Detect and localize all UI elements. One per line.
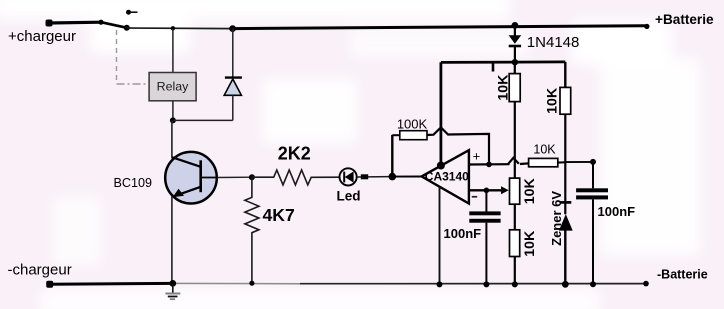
wire base to node bbox=[217, 176, 252, 178]
svg-text:Zener 6V: Zener 6V bbox=[549, 191, 564, 246]
wire LED to output node with blob bbox=[357, 174, 393, 179]
-Batterie terminal bbox=[643, 268, 708, 287]
wire to cap bbox=[565, 159, 596, 188]
wire ground rail to -Batterie bbox=[300, 283, 646, 285]
node 4K7 bottom bbox=[249, 281, 254, 286]
svg-text:10K: 10K bbox=[522, 230, 538, 257]
potentiometer 10K bbox=[510, 177, 538, 204]
svg-text:10K: 10K bbox=[545, 87, 561, 114]
wire cap to ground rail bbox=[592, 199, 594, 284]
svg-text:+Batterie: +Batterie bbox=[655, 12, 714, 27]
resistor 4K7 bbox=[245, 177, 295, 283]
resistor 10K right bbox=[545, 87, 571, 114]
wire terminal to switch bbox=[49, 21, 101, 25]
svg-text:100nF: 100nF bbox=[598, 204, 636, 219]
svg-text:4K7: 4K7 bbox=[262, 205, 294, 225]
wire node to op-amp apex bbox=[392, 176, 421, 178]
terminal -chargeur bbox=[8, 262, 72, 288]
svg-text:BC109: BC109 bbox=[114, 176, 153, 190]
switch S1 open contact bbox=[126, 10, 138, 15]
capacitor C1 100nF bbox=[444, 211, 501, 241]
node op-amp V- bottom bbox=[437, 281, 443, 287]
svg-text:100nF: 100nF bbox=[444, 226, 482, 241]
node relay column on top rail bbox=[171, 26, 175, 30]
node 1N4148 junction bbox=[512, 22, 519, 29]
switch S1 blade bbox=[98, 20, 129, 31]
svg-text:10K: 10K bbox=[522, 177, 538, 204]
wire pot to lower 10K bbox=[514, 204, 516, 230]
wire rail to 10K bbox=[514, 62, 516, 73]
node op-amp output bbox=[389, 173, 397, 181]
wire - input to pot wiper arrow bbox=[469, 186, 509, 194]
zener diode 6V bbox=[549, 191, 572, 246]
wire 10K down to zener bbox=[564, 114, 566, 214]
node relay/diode bbox=[170, 117, 176, 123]
wire node to diode bottom bbox=[173, 119, 233, 121]
wire rail to diode cathode bbox=[232, 29, 234, 78]
+Batterie terminal arrow bbox=[644, 12, 714, 29]
supply column to op-amp edge bbox=[437, 62, 445, 169]
svg-text:10K: 10K bbox=[495, 74, 511, 101]
node diode junction bbox=[229, 25, 236, 32]
relay K1 bbox=[149, 73, 196, 101]
wire cap to ground rail bbox=[485, 223, 487, 285]
stub at supply rail bbox=[492, 62, 495, 71]
resistor 10K upper-left bbox=[495, 74, 520, 102]
svg-text:100K: 100K bbox=[397, 116, 428, 131]
wire op-amp V- down to rail bbox=[439, 187, 441, 284]
wire ground rail thin gray bbox=[174, 282, 300, 284]
svg-text:10K: 10K bbox=[533, 142, 556, 156]
diode D1 clamp bbox=[224, 78, 242, 96]
wire rail corner down bbox=[564, 62, 566, 88]
wire + input bbox=[469, 158, 529, 167]
transistor Q1 BC109 bbox=[114, 152, 218, 204]
ground node bbox=[169, 280, 176, 287]
wire distribution rail bbox=[441, 61, 565, 64]
node base/4K7 bbox=[249, 174, 255, 180]
op-amp U1 CA3140 bbox=[422, 148, 481, 203]
resistor 10K horizontal bbox=[529, 142, 566, 166]
wire 10K down through hop to pot bbox=[514, 102, 516, 179]
svg-text:-chargeur: -chargeur bbox=[8, 262, 72, 279]
resistor 100K bbox=[392, 116, 427, 139]
wire collector bbox=[171, 120, 173, 158]
ground symbol bbox=[165, 283, 180, 299]
svg-text:1N4148: 1N4148 bbox=[527, 34, 580, 51]
capacitor C2 100nF bbox=[576, 188, 635, 219]
wire relay bottom bbox=[172, 101, 174, 121]
node 1N4148 to rail bbox=[512, 59, 518, 65]
dashed actuation link bbox=[117, 30, 150, 84]
wire - input node down bbox=[485, 190, 487, 211]
node divider bottom bbox=[512, 281, 518, 287]
wire emitter down bbox=[171, 197, 173, 284]
resistor 10K lower bbox=[510, 230, 538, 257]
wire diode anode down bbox=[232, 95, 234, 120]
wire zener to ground rail bbox=[564, 230, 566, 284]
wire rail to relay coil bbox=[172, 28, 174, 72]
svg-text:+chargeur: +chargeur bbox=[8, 28, 76, 45]
svg-text:Relay: Relay bbox=[157, 80, 189, 94]
svg-text:CA3140: CA3140 bbox=[425, 170, 469, 184]
terminal +chargeur bbox=[8, 20, 76, 46]
node C2 bottom bbox=[590, 281, 596, 287]
wire lower 10K to ground rail bbox=[514, 257, 516, 285]
svg-text:-Batterie: -Batterie bbox=[657, 268, 708, 282]
node zener bottom bbox=[562, 281, 569, 288]
svg-text:+: + bbox=[473, 148, 481, 163]
1N4148 diode bbox=[509, 25, 580, 62]
wire top rail to +Batterie (thick) bbox=[233, 26, 645, 29]
wire -chargeur to ground node (thick) bbox=[50, 282, 175, 286]
wire output node up bbox=[391, 135, 393, 177]
wire switch to diode junction (thin) bbox=[127, 27, 233, 30]
wire 100K to + node with hop over supply column bbox=[427, 127, 489, 164]
LED bbox=[336, 168, 360, 203]
resistor 2K2 bbox=[252, 143, 339, 185]
node C1 bottom bbox=[483, 281, 489, 287]
svg-text:Led: Led bbox=[336, 188, 360, 203]
svg-text:2K2: 2K2 bbox=[278, 143, 311, 163]
